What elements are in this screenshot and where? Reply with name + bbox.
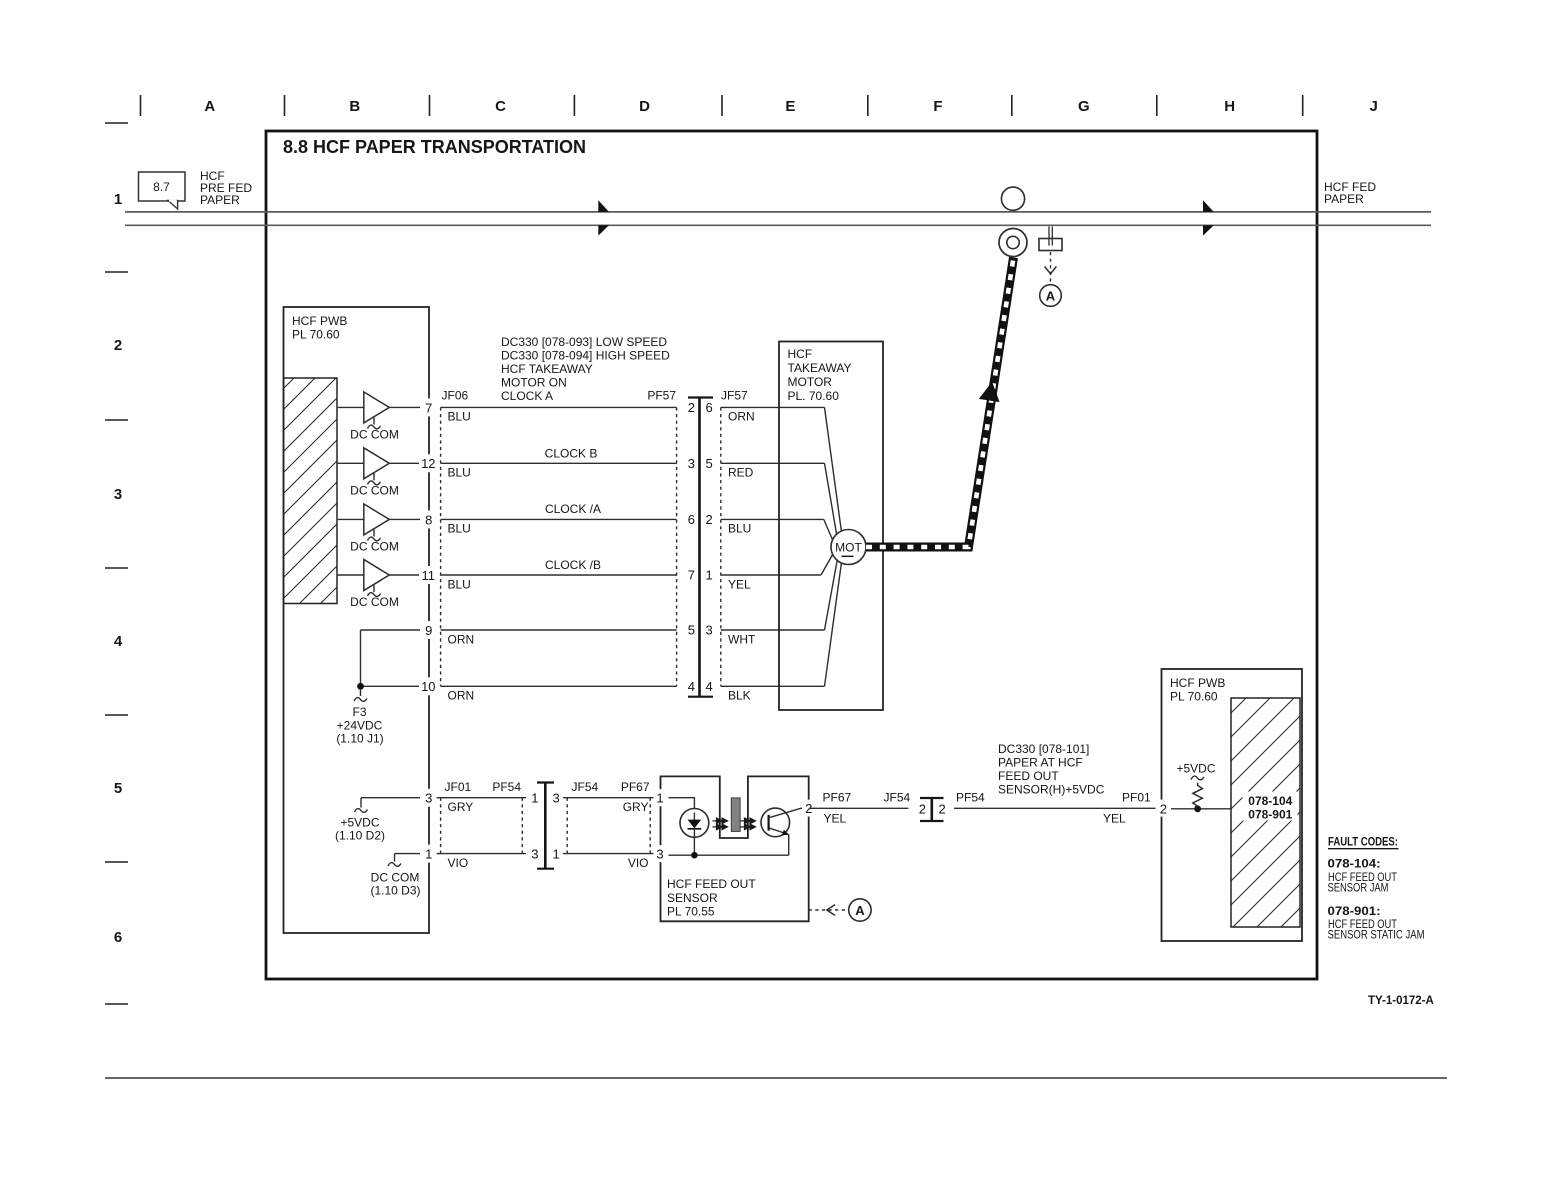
HCF PWB (right) box [1162,669,1303,941]
lower roller inner [1007,236,1019,248]
svg-text:4: 4 [688,679,695,694]
label HCF FED PAPER [1324,180,1376,206]
feed direction arrow upper-left [598,200,609,212]
svg-text:3: 3 [114,486,122,503]
PF57 pin numbers [688,400,695,694]
DC COM symbol under buffer 4 [350,585,399,609]
column letters [204,98,1377,115]
wire sensor pin2 to JF54 inline [809,807,909,809]
lower roller outer [999,229,1027,257]
svg-text:PL 70.60: PL 70.60 [292,328,340,342]
wire CLOCK /A pin8-6 [441,518,677,520]
junction resistor node [1194,805,1201,812]
svg-text:BLU: BLU [448,410,471,424]
svg-text:PF67: PF67 [823,791,852,805]
upper roller [1001,187,1024,210]
svg-text:PF01: PF01 [1122,791,1151,805]
bottom rule [105,1077,1447,1079]
svg-text:DC COM: DC COM [350,595,399,609]
svg-text:TAKEAWAY: TAKEAWAY [788,361,852,375]
svg-text:PAPER: PAPER [200,193,240,207]
pin 10 [419,677,439,695]
svg-text:+5VDC: +5VDC [340,816,379,830]
svg-text:H: H [1224,98,1235,115]
svg-text:BLU: BLU [448,522,471,536]
svg-text:MOTOR: MOTOR [788,375,833,389]
svg-text:8: 8 [425,512,432,527]
label HCF PRE FED PAPER [200,169,252,207]
HCF FEED OUT SENSOR box outline [661,776,809,921]
svg-text:MOT: MOT [835,541,862,555]
svg-text:JF06: JF06 [442,389,469,403]
DC COM branch wire [370,854,420,898]
svg-text:8.8 HCF PAPER TRANSPORTATION: 8.8 HCF PAPER TRANSPORTATION [283,137,586,157]
svg-text:F3: F3 [352,705,366,719]
note DC330 paper at sensor [998,742,1105,797]
main frame [266,131,1317,979]
svg-text:7: 7 [688,568,695,583]
+5VDC off-page symbol (right) [1191,776,1204,780]
svg-text:SENSOR(H)+5VDC: SENSOR(H)+5VDC [998,783,1105,797]
svg-text:DC COM: DC COM [350,483,399,497]
svg-text:VIO: VIO [628,856,649,870]
svg-text:CLOCK B: CLOCK B [545,447,598,461]
svg-text:PF57: PF57 [647,389,676,403]
svg-text:HCF: HCF [788,347,813,361]
8.7 reference bubble [139,172,186,209]
svg-text:3: 3 [706,623,713,638]
motor fan wire RED [825,463,838,536]
junction F3 node [357,683,364,690]
connector PF57 dashed edge [676,407,678,686]
svg-text:GRY: GRY [448,800,474,814]
svg-text:ORN: ORN [448,689,475,703]
svg-text:DC330 [078-093] LOW SPEED: DC330 [078-093] LOW SPEED [501,335,667,349]
svg-text:DC330 [078-094] HIGH SPEED: DC330 [078-094] HIGH SPEED [501,349,670,363]
svg-text:3: 3 [531,847,538,862]
svg-text:RED: RED [728,466,754,480]
wire vertical 9-10 tie [360,630,362,686]
svg-text:2: 2 [688,400,695,415]
svg-text:GRY: GRY [623,800,649,814]
wire GRY JF54-PF67 [563,797,654,799]
svg-text:FEED OUT: FEED OUT [998,769,1059,783]
svg-text:B: B [349,98,360,115]
svg-text:SENSOR: SENSOR [667,891,718,905]
wire VIO JF54-PF67 [563,853,654,855]
svg-text:3: 3 [425,791,432,806]
svg-text:(1.10 D3): (1.10 D3) [370,884,420,898]
motor fan wire BLK [825,563,842,687]
wire CLOCK A pin7-2 [441,406,677,408]
svg-text:078-104: 078-104 [1248,794,1292,808]
feed direction arrow upper-right [1203,200,1214,212]
svg-text:2: 2 [919,802,926,817]
svg-text:6: 6 [688,512,695,527]
JF57 pin numbers [706,400,713,694]
wire +24V pin10-4 [441,685,677,687]
junction LED-emitter node [691,852,698,859]
svg-text:078-901:: 078-901: [1328,904,1381,918]
LED diode symbol [693,813,695,821]
svg-text:2: 2 [1160,802,1167,817]
svg-text:6: 6 [706,400,713,415]
svg-text:PL. 70.60: PL. 70.60 [788,389,840,403]
svg-text:PF67: PF67 [621,780,650,794]
hatched logic block (left PWB) [284,378,338,604]
sensor pin 3 [654,845,667,862]
phototransistor circle [761,808,790,837]
svg-text:SENSOR STATIC JAM: SENSOR STATIC JAM [1328,928,1425,942]
svg-text:PAPER: PAPER [1324,192,1364,206]
belt direction arrowhead [979,382,1000,402]
motor fan wire ORN [825,407,842,532]
svg-text:9: 9 [425,623,432,638]
connector JF06 dashed edge [440,407,442,686]
JF57 wire colour labels [728,410,756,703]
svg-text:1: 1 [656,791,663,806]
svg-text:MOTOR ON: MOTOR ON [501,376,567,390]
sensor pin 1 [654,789,667,806]
dashed pointer to note A [1050,252,1052,284]
svg-text:HCF PWB: HCF PWB [292,314,347,328]
wire VIO JF01-PF54 [437,853,527,855]
grid ruler ticks top [141,95,1303,116]
DC COM symbol under buffer 1 [350,417,399,441]
svg-text:7: 7 [425,400,432,415]
svg-text:HCF TAKEAWAY: HCF TAKEAWAY [501,362,593,376]
svg-text:5: 5 [114,780,122,797]
connector JF01 dashed edge [440,798,442,854]
buffer U1 row CLOCK A [337,392,420,423]
buffer U3 row CLOCK /A [337,504,420,535]
svg-text:F: F [933,98,942,115]
svg-text:1: 1 [706,568,713,583]
connector mate bar PF57/JF57 [688,398,713,697]
paper path lower line [125,224,1431,226]
svg-text:CLOCK A: CLOCK A [501,389,553,403]
svg-text:078-901: 078-901 [1248,808,1292,822]
note A circle (sensor) [849,899,871,921]
note DC330 motor on [501,335,670,403]
phototransistor collector to pin 2 [769,808,809,818]
svg-text:PL 70.55: PL 70.55 [667,905,715,919]
svg-text:4: 4 [114,633,123,650]
svg-text:ORN: ORN [448,632,475,646]
phototransistor base bar [767,815,769,831]
svg-text:8.7: 8.7 [153,180,170,194]
svg-text:2: 2 [939,802,946,817]
svg-text:CLOCK /A: CLOCK /A [545,502,601,516]
wire sensor pin1 to LED [669,798,695,819]
svg-text:SENSOR JAM: SENSOR JAM [1328,881,1389,895]
svg-text:2: 2 [114,337,122,354]
pin 8 [421,510,437,528]
drive belt (checkered) [866,258,1014,548]
row numbers [114,191,123,946]
HCF TAKEAWAY MOTOR box [779,342,883,711]
svg-text:JF57: JF57 [721,389,748,403]
wire inline to PF01 [954,807,1162,809]
svg-text:3: 3 [656,847,663,862]
svg-text:D: D [639,98,650,115]
svg-text:1: 1 [553,847,560,862]
connector PF67 dashed edge [649,798,651,854]
svg-text:4: 4 [706,679,713,694]
pull-up resistor R [1193,783,1203,807]
svg-text:BLU: BLU [728,522,751,536]
svg-text:+24VDC: +24VDC [337,719,383,733]
svg-text:JF54: JF54 [572,780,599,794]
svg-text:A: A [1046,289,1056,304]
svg-text:DC COM: DC COM [371,871,420,885]
LED emission arrows [713,818,728,830]
svg-text:WHT: WHT [728,632,756,646]
motor fan wire WHT [825,559,838,631]
svg-text:G: G [1078,98,1090,115]
svg-text:VIO: VIO [448,856,469,870]
wire pin2 to hatch [1171,808,1231,810]
svg-text:BLU: BLU [448,577,471,591]
svg-text:FAULT CODES:: FAULT CODES: [1328,835,1398,849]
svg-text:078-104:: 078-104: [1328,857,1381,871]
pin 12 [419,454,439,472]
grid ruler ticks left [105,123,128,1004]
pin 3 (JF01) [421,789,437,807]
pin 9 [421,621,437,639]
LED circle [680,809,709,838]
connector mate bar PF54/JF54 [537,783,554,869]
paper path upper line [125,211,1431,213]
svg-text:E: E [785,98,795,115]
pin 11 [419,566,439,584]
svg-text:PL 70.60: PL 70.60 [1170,690,1218,704]
svg-text:1: 1 [531,791,538,806]
svg-text:1: 1 [425,847,432,862]
sensor pin 2 [802,800,816,817]
hatched block (right PWB) [1231,698,1300,927]
pin 2 (PF01) [1156,800,1171,817]
svg-text:(1.10 J1): (1.10 J1) [336,732,383,746]
svg-text:5: 5 [688,623,695,638]
feed out sensor actuator stem [1048,227,1050,246]
JF57 wire stubs to motor [721,407,825,686]
feed direction arrow lower-left [598,225,609,235]
svg-text:PF54: PF54 [492,780,521,794]
wire sensor pin3 rail [669,854,789,856]
svg-text:CLOCK /B: CLOCK /B [545,558,601,572]
fault code tag box [1243,792,1298,821]
motor fan wire YEL [821,553,834,575]
buffer U2 row CLOCK B [337,448,420,479]
svg-text:12: 12 [421,456,435,471]
svg-text:DC COM: DC COM [350,428,399,442]
svg-text:YEL: YEL [824,812,847,826]
svg-text:PF54: PF54 [956,791,985,805]
DC COM symbol under buffer 2 [350,473,399,497]
DC COM symbol under buffer 3 [350,529,399,553]
svg-text:(1.10 D2): (1.10 D2) [335,829,385,843]
wire GRY JF01-PF54 [437,797,527,799]
svg-text:A: A [855,903,865,918]
svg-text:YEL: YEL [728,577,751,591]
svg-text:HCF PWB: HCF PWB [1170,676,1225,690]
svg-text:BLK: BLK [728,689,751,703]
pointer arrowhead [1045,267,1057,274]
svg-text:BLU: BLU [448,466,471,480]
svg-text:PAPER AT HCF: PAPER AT HCF [998,756,1083,770]
wire CLOCK /B pin11-7 [441,574,677,576]
svg-text:11: 11 [422,568,436,583]
svg-text:1: 1 [114,191,122,208]
svg-text:JF54: JF54 [884,791,911,805]
svg-text:A: A [204,98,215,115]
fuse F3 off-page symbol [336,690,383,746]
connector JF57 dashed edge [720,407,722,686]
svg-text:10: 10 [421,679,435,694]
svg-text:YEL: YEL [1103,812,1126,826]
wire pin 10 [361,685,421,687]
svg-text:J: J [1370,98,1378,115]
+5VDC branch wire [335,798,420,843]
flag emission arrows [741,818,756,830]
svg-text:DC COM: DC COM [350,540,399,554]
connector PF54 dashed edge [521,798,523,854]
pin 7 [421,398,437,416]
dashed pointer to note A (sensor) [809,909,848,911]
HCF PWB (left) box [284,307,430,933]
wire pin 9 [361,629,421,631]
label HCF TAKEAWAY MOTOR PL 70.60 [788,347,852,403]
svg-text:HCF FEED OUT: HCF FEED OUT [667,877,756,891]
svg-text:3: 3 [553,791,560,806]
pin 1 (JF01) [421,845,437,863]
feed out sensor body [1039,239,1062,251]
phototransistor emitter [769,828,789,835]
sensor flag (shaded) [731,798,740,832]
svg-text:DC330 [078-101]: DC330 [078-101] [998,742,1089,756]
motor fan wire BLU [824,519,834,542]
svg-text:3: 3 [688,456,695,471]
svg-text:+5VDC: +5VDC [1177,762,1216,776]
svg-text:TY-1-0172-A: TY-1-0172-A [1368,995,1434,1007]
inline connector bar JF54/PF54 [920,798,944,821]
feed direction arrow lower-right [1203,225,1214,235]
motor MOT circle [831,530,866,565]
svg-text:5: 5 [706,456,713,471]
svg-text:ORN: ORN [728,410,755,424]
svg-text:6: 6 [114,929,122,946]
svg-text:C: C [495,98,506,115]
buffer U4 row CLOCK /B [337,560,420,591]
note A circle (top) [1040,285,1062,307]
connector JF54 dashed edge [566,798,568,854]
wire +24V pin9-5 [441,629,677,631]
svg-text:JF01: JF01 [445,780,472,794]
label HCF FEED OUT SENSOR PL 70.55 [667,877,756,919]
svg-text:2: 2 [706,512,713,527]
wire CLOCK B pin12-3 [441,462,677,464]
